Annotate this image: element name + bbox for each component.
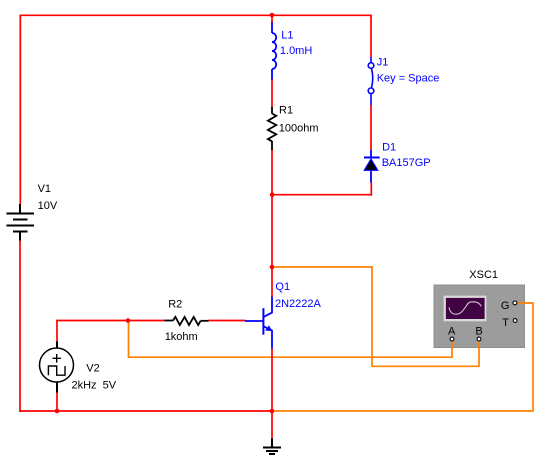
svg-text:A: A bbox=[448, 325, 456, 337]
oscilloscope terminal A bbox=[450, 337, 454, 341]
svg-text:BA157GP: BA157GP bbox=[382, 157, 431, 169]
battery V1 bbox=[7, 204, 35, 241]
junction R2 left / channel A tap bbox=[126, 318, 131, 323]
wire L1 to R1 bbox=[271, 79, 273, 108]
transistor Q1 bbox=[245, 297, 272, 349]
wire mid rail to diode branch bbox=[272, 194, 371, 196]
wire switch to diode bbox=[370, 105, 372, 151]
resistor R1 bbox=[268, 107, 276, 150]
svg-text:D1: D1 bbox=[382, 141, 396, 153]
wire scope ground orange bbox=[272, 303, 533, 411]
svg-text:XSC1: XSC1 bbox=[469, 269, 498, 281]
svg-text:100ohm: 100ohm bbox=[279, 122, 319, 134]
wire left rail lower bbox=[19, 240, 21, 412]
junction top rail / L1 bbox=[270, 13, 275, 18]
junction collector / channel B tap bbox=[270, 265, 275, 270]
svg-text:2N2222A: 2N2222A bbox=[275, 298, 322, 310]
oscilloscope XSC1 body bbox=[434, 285, 525, 348]
oscilloscope terminal G bbox=[513, 301, 517, 305]
wire diode anode to corner bbox=[370, 182, 372, 196]
svg-text:L1: L1 bbox=[281, 29, 293, 41]
wire mid junction to collector bbox=[271, 195, 273, 297]
wire left rail upper bbox=[19, 15, 21, 205]
oscilloscope sine trace bbox=[449, 302, 481, 314]
wire ground stub bbox=[271, 411, 273, 439]
svg-text:R2: R2 bbox=[168, 299, 182, 311]
junction mid rail bbox=[270, 192, 275, 197]
switch J1 bbox=[368, 57, 374, 105]
wire top rail bbox=[20, 14, 371, 16]
oscilloscope terminal T bbox=[513, 319, 517, 323]
source V2 bbox=[40, 342, 74, 393]
inductor L1 bbox=[272, 23, 276, 80]
svg-text:10V: 10V bbox=[38, 200, 58, 212]
wire L1 top stub bbox=[271, 15, 273, 24]
wire scope channel B orange bbox=[272, 267, 479, 366]
svg-text:1kohm: 1kohm bbox=[165, 331, 198, 343]
resistor R2 bbox=[165, 317, 209, 325]
wire bottom rail bbox=[19, 410, 272, 412]
wire R1 to mid junction bbox=[271, 150, 273, 195]
wire R2 to Q1 base bbox=[209, 320, 246, 322]
wire V2 top column bbox=[56, 321, 58, 342]
wire emitter to bottom rail bbox=[271, 348, 273, 411]
svg-text:J1: J1 bbox=[377, 57, 389, 69]
oscilloscope terminal B bbox=[477, 337, 481, 341]
svg-text:2kHz 5V: 2kHz 5V bbox=[72, 380, 117, 392]
svg-text:V1: V1 bbox=[38, 183, 51, 195]
svg-text:Q1: Q1 bbox=[275, 281, 290, 293]
svg-text:T: T bbox=[502, 317, 509, 329]
diode D1 bbox=[364, 150, 380, 183]
wire scope channel A orange bbox=[129, 321, 453, 357]
svg-text:G: G bbox=[501, 300, 510, 312]
svg-text:Key = Space: Key = Space bbox=[377, 73, 440, 85]
wire V2 bottom stub bbox=[56, 392, 58, 411]
svg-text:R1: R1 bbox=[279, 105, 293, 117]
svg-text:V2: V2 bbox=[86, 362, 99, 374]
ground bbox=[263, 439, 281, 455]
oscilloscope screen bbox=[444, 296, 487, 322]
junction V2 bottom rail bbox=[55, 409, 60, 414]
wire top rail to switch bbox=[370, 15, 372, 58]
svg-text:1.0mH: 1.0mH bbox=[280, 45, 312, 57]
svg-text:B: B bbox=[475, 325, 482, 337]
wire V2 to R2 row bbox=[56, 320, 165, 322]
junction ground / bottom rail bbox=[270, 409, 275, 414]
